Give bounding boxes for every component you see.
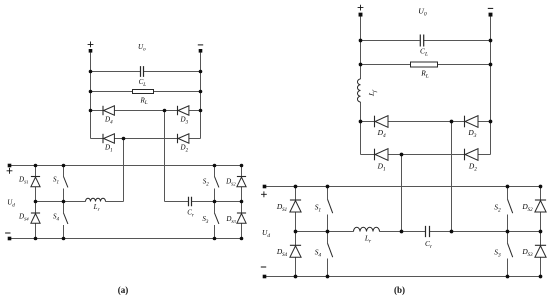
svg-text:(b): (b) bbox=[394, 285, 405, 295]
svg-text:(a): (a) bbox=[118, 285, 129, 295]
